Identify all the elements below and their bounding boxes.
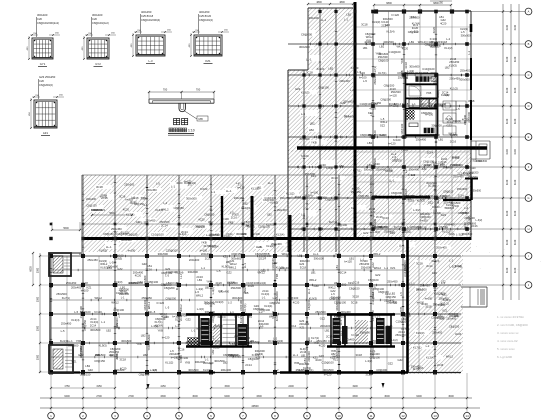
- svg-text:300x600: 300x600: [143, 275, 147, 286]
- svg-text:2C14: 2C14: [427, 150, 434, 154]
- svg-text:250x500: 250x500: [119, 287, 130, 291]
- svg-text:C8@200: C8@200: [186, 340, 197, 344]
- svg-text:KL1(2): KL1(2): [436, 90, 440, 98]
- svg-text:300x500: 300x500: [299, 362, 310, 366]
- svg-text:KL7(1): KL7(1): [243, 304, 247, 312]
- svg-text:GZ2: GZ2: [398, 358, 404, 362]
- svg-text:L-3(2): L-3(2): [373, 230, 380, 234]
- stair core C2: [327, 313, 395, 315]
- grid bubble row 1: [471, 11, 525, 13]
- svg-text:h=100: h=100: [200, 187, 208, 191]
- svg-text:WKL2: WKL2: [160, 312, 168, 316]
- svg-text:250x450: 250x450: [439, 297, 450, 301]
- lower block columns: [49, 254, 53, 258]
- svg-text:KZ1: KZ1: [300, 325, 305, 329]
- svg-text:LB1: LB1: [176, 355, 181, 359]
- svg-text:C: C: [528, 73, 530, 77]
- stair flight top (dark): [415, 76, 429, 82]
- svg-text:250x450: 250x450: [277, 208, 288, 212]
- svg-text:h=120: h=120: [252, 353, 260, 357]
- svg-text:L-3(2): L-3(2): [151, 324, 158, 328]
- svg-text:300x600: 300x600: [336, 282, 347, 286]
- svg-text:L-1: L-1: [201, 266, 205, 270]
- svg-text:2C16: 2C16: [383, 216, 390, 220]
- svg-text:LB1: LB1: [230, 342, 235, 346]
- svg-text:L-5: L-5: [74, 310, 78, 314]
- svg-text:WKL2: WKL2: [196, 293, 204, 297]
- svg-text:250x500: 250x500: [361, 265, 372, 269]
- svg-text:L-3(2): L-3(2): [207, 319, 211, 326]
- svg-text:KL7(1): KL7(1): [413, 345, 421, 349]
- svg-text:C8@150: C8@150: [307, 299, 311, 310]
- svg-text:KL7(1): KL7(1): [373, 66, 377, 74]
- svg-text:KL9(3): KL9(3): [441, 93, 449, 97]
- right ramp protrusion: [461, 286, 487, 288]
- svg-text:4C20: 4C20: [135, 274, 142, 278]
- svg-text:L-3(2): L-3(2): [413, 208, 421, 212]
- svg-text:300x500: 300x500: [450, 201, 461, 205]
- grid bubble column 12: [402, 373, 404, 412]
- svg-text:C8@150: C8@150: [334, 315, 345, 319]
- svg-text:LB2: LB2: [243, 201, 248, 205]
- svg-text:3C18: 3C18: [213, 345, 220, 349]
- elevator core outline: [405, 74, 437, 136]
- svg-text:C8@200: C8@200: [143, 299, 147, 310]
- svg-text:KZ1: KZ1: [390, 266, 395, 270]
- svg-text:KL1(2): KL1(2): [390, 338, 398, 342]
- svg-text:YKB: YKB: [147, 345, 151, 351]
- svg-text:KL3(4): KL3(4): [179, 232, 187, 236]
- svg-text:250x500: 250x500: [462, 232, 473, 236]
- svg-text:WKL2: WKL2: [436, 103, 444, 107]
- svg-text:2C16: 2C16: [353, 281, 360, 285]
- grid bubble column 1: [50, 373, 52, 412]
- svg-text:3C18: 3C18: [119, 357, 126, 361]
- svg-text:WKL2: WKL2: [416, 288, 424, 292]
- svg-text:GZ2: GZ2: [295, 87, 301, 91]
- svg-text:h=100: h=100: [243, 336, 251, 340]
- svg-text:WKL2: WKL2: [95, 296, 103, 300]
- hatched slab region: tower bottom / mid band east: [288, 150, 471, 252]
- svg-text:3000: 3000: [448, 395, 454, 398]
- svg-text:GZ2: GZ2: [432, 271, 438, 275]
- svg-text:2C16: 2C16: [450, 139, 457, 143]
- svg-text:AZ1: AZ1: [43, 131, 49, 135]
- svg-text:YKB: YKB: [243, 291, 249, 295]
- svg-text:L-2: L-2: [464, 207, 468, 210]
- svg-text:300x500: 300x500: [477, 160, 487, 163]
- svg-text:KL3(4): KL3(4): [175, 282, 179, 290]
- svg-text:C8@200: C8@200: [165, 296, 176, 300]
- svg-text:3100: 3100: [514, 118, 517, 124]
- svg-text:C8@200: C8@200: [161, 283, 172, 287]
- svg-text:M8: M8: [199, 117, 203, 121]
- svg-text:KZ1: KZ1: [223, 254, 228, 258]
- svg-text:GZ2: GZ2: [385, 23, 391, 27]
- svg-text:3C18: 3C18: [96, 185, 103, 189]
- svg-text:4C20: 4C20: [402, 47, 409, 51]
- svg-text:L-3(2): L-3(2): [407, 69, 414, 73]
- svg-text:C8@150: C8@150: [127, 232, 138, 236]
- svg-text:WKL2: WKL2: [229, 265, 237, 269]
- svg-text:LB2: LB2: [433, 286, 438, 290]
- svg-text:GZ2: GZ2: [142, 262, 148, 266]
- svg-text:C8@200: C8@200: [425, 133, 436, 137]
- tower columns: [371, 10, 375, 14]
- grid bubble column 13: [434, 373, 436, 412]
- svg-text:3C18: 3C18: [416, 261, 423, 265]
- band grid verticals: [81, 175, 83, 252]
- svg-text:B: B: [528, 42, 530, 46]
- svg-text:300x600: 300x600: [108, 265, 119, 269]
- svg-text:250x450: 250x450: [142, 296, 153, 300]
- svg-text:GZ2: GZ2: [375, 273, 381, 277]
- svg-text:C8@100/200(2x2): C8@100/200(2x2): [37, 21, 59, 25]
- svg-text:LB1: LB1: [363, 46, 368, 50]
- svg-text:C10@100: C10@100: [258, 224, 270, 228]
- svg-text:A: A: [528, 10, 530, 14]
- svg-text:h=100: h=100: [200, 248, 208, 252]
- svg-text:2C14: 2C14: [90, 323, 97, 327]
- short wall x=252: [251, 196, 254, 240]
- svg-text:C8@200: C8@200: [391, 191, 403, 195]
- svg-text:KL3(4): KL3(4): [387, 30, 395, 34]
- svg-text:C8@150: C8@150: [195, 224, 206, 228]
- svg-text:2C16: 2C16: [205, 256, 212, 260]
- svg-text:3100: 3100: [506, 149, 509, 155]
- grid bubble column 8: [274, 373, 276, 412]
- svg-text:C20: C20: [39, 79, 44, 83]
- wall segment y=197 tower bottom: [372, 196, 430, 198]
- svg-text:250x500: 250x500: [372, 339, 383, 343]
- svg-text:3100: 3100: [506, 118, 509, 124]
- svg-text:4C20: 4C20: [293, 300, 300, 304]
- svg-text:h=120: h=120: [430, 82, 438, 86]
- svg-text:KL3(4): KL3(4): [305, 194, 313, 198]
- grid bubble row 7: [471, 197, 525, 199]
- svg-text:GZ2: GZ2: [380, 123, 386, 127]
- svg-text:KZ1: KZ1: [72, 359, 77, 363]
- svg-text:2C14: 2C14: [212, 245, 219, 249]
- svg-text:6. Lg=1200: 6. Lg=1200: [497, 355, 512, 359]
- svg-text:C8@150: C8@150: [400, 313, 411, 317]
- svg-text:200x400: 200x400: [275, 291, 279, 302]
- svg-text:250x450: 250x450: [351, 190, 362, 194]
- svg-text:WKL2: WKL2: [446, 354, 454, 358]
- svg-text:L-1: L-1: [384, 266, 388, 270]
- svg-text:KL3(4): KL3(4): [432, 259, 440, 263]
- svg-text:L-5: L-5: [151, 310, 155, 314]
- svg-text:LB2: LB2: [85, 364, 90, 368]
- svg-text:KL7(1): KL7(1): [436, 196, 440, 204]
- svg-text:LL-1: LL-1: [307, 288, 311, 294]
- grid bubble column 7: [242, 373, 244, 412]
- svg-text:L-5: L-5: [399, 292, 403, 296]
- svg-text:h=120: h=120: [390, 93, 398, 97]
- svg-text:KL9(3): KL9(3): [416, 331, 424, 335]
- svg-text:LB2: LB2: [141, 334, 146, 338]
- svg-text:C8@150: C8@150: [83, 319, 87, 330]
- svg-text:700: 700: [163, 88, 168, 92]
- svg-text:WKL2: WKL2: [282, 252, 290, 256]
- svg-text:KL9(3): KL9(3): [215, 324, 223, 328]
- svg-text:C8@200: C8@200: [384, 83, 395, 87]
- svg-text:3C18: 3C18: [404, 62, 408, 69]
- svg-text:4. xxxx xxxx-02: 4. xxxx xxxx-02: [497, 339, 518, 343]
- svg-text:YKB: YKB: [313, 341, 319, 345]
- svg-text:2C16: 2C16: [386, 324, 393, 328]
- svg-text:WKL2: WKL2: [449, 132, 457, 136]
- stair core C1: [186, 313, 252, 316]
- svg-text:L-5: L-5: [165, 305, 169, 309]
- right grid dimension lines: [502, 4, 504, 300]
- svg-text:3100: 3100: [506, 24, 509, 30]
- svg-text:LL-1: LL-1: [211, 335, 215, 341]
- svg-text:L-1: L-1: [121, 295, 125, 299]
- svg-text:C6@200(2): C6@200(2): [39, 83, 53, 87]
- svg-text:KL3(4): KL3(4): [71, 318, 79, 322]
- svg-text:3C18: 3C18: [468, 99, 475, 103]
- svg-text:49500: 49500: [251, 404, 259, 408]
- svg-text:2700: 2700: [128, 395, 134, 398]
- svg-text:YKB: YKB: [372, 194, 378, 198]
- svg-text:GZ2: GZ2: [136, 220, 142, 224]
- svg-text:4C20: 4C20: [319, 343, 326, 347]
- svg-text:300x600: 300x600: [360, 330, 371, 334]
- bottom edge thick segments: [280, 371, 408, 374]
- svg-text:KL3(4): KL3(4): [276, 233, 284, 237]
- svg-text:250x450: 250x450: [421, 196, 432, 200]
- svg-text:GZ2: GZ2: [320, 316, 326, 320]
- svg-text:C8@150: C8@150: [231, 252, 242, 256]
- svg-text:6400: 6400: [320, 395, 326, 398]
- lower block outline: [49, 253, 51, 373]
- svg-text:300x500: 300x500: [205, 301, 216, 305]
- svg-text:L-2: L-2: [228, 300, 232, 304]
- svg-text:KL7(1): KL7(1): [303, 366, 311, 370]
- svg-text:3000: 3000: [288, 395, 294, 398]
- svg-text:1500: 1500: [224, 385, 230, 388]
- svg-text:3C18: 3C18: [365, 372, 372, 376]
- svg-text:KL3(4): KL3(4): [426, 356, 434, 360]
- svg-text:LB1: LB1: [438, 137, 443, 141]
- svg-text:h=120: h=120: [317, 67, 325, 71]
- svg-text:KL1(2): KL1(2): [441, 302, 449, 306]
- svg-text:250x450: 250x450: [395, 333, 406, 337]
- svg-text:WKL2: WKL2: [147, 301, 151, 309]
- svg-text:C8@150: C8@150: [358, 194, 369, 198]
- svg-text:KL3(4): KL3(4): [258, 281, 266, 285]
- svg-text:YKB: YKB: [158, 328, 164, 332]
- svg-text:GZ2: GZ2: [88, 368, 94, 372]
- lower block grid verticals: [49, 253, 51, 372]
- svg-text:3C18: 3C18: [331, 176, 338, 180]
- svg-text:C8@200: C8@200: [301, 33, 313, 37]
- svg-text:KL7(1): KL7(1): [330, 341, 338, 345]
- svg-text:LB1: LB1: [147, 264, 152, 268]
- svg-text:C8@150: C8@150: [134, 202, 145, 206]
- svg-text:GY2: GY2: [95, 62, 101, 66]
- svg-text:h=100: h=100: [128, 248, 136, 252]
- svg-text:KL3(4): KL3(4): [218, 315, 226, 319]
- svg-text:5600: 5600: [63, 227, 69, 230]
- core wall y=98.5: [405, 97, 437, 99]
- svg-text:200x400: 200x400: [339, 79, 350, 83]
- svg-text:L-3(2): L-3(2): [419, 102, 426, 106]
- svg-text:3000: 3000: [37, 296, 40, 302]
- svg-text:KL1(2): KL1(2): [286, 192, 294, 196]
- svg-text:L-5: L-5: [357, 70, 361, 74]
- svg-text:LL-1: LL-1: [313, 252, 319, 256]
- svg-text:C8@200: C8@200: [204, 212, 215, 216]
- svg-text:4C20: 4C20: [275, 314, 279, 321]
- svg-text:300x600: 300x600: [68, 343, 79, 347]
- svg-text:200x400: 200x400: [203, 361, 214, 365]
- svg-text:L-3(2): L-3(2): [476, 219, 483, 222]
- shear wall x=407: [406, 240, 409, 372]
- svg-text:h=100: h=100: [359, 75, 367, 79]
- svg-text:700: 700: [196, 88, 201, 92]
- svg-text:200x400: 200x400: [436, 245, 447, 249]
- grid bubble row 9: [462, 255, 525, 257]
- svg-text:250x450: 250x450: [61, 322, 72, 326]
- svg-text:KL9(3): KL9(3): [449, 63, 457, 67]
- svg-text:WKL2: WKL2: [111, 300, 119, 304]
- svg-text:YKB: YKB: [185, 361, 191, 365]
- svg-text:WKL2: WKL2: [328, 286, 336, 290]
- svg-text:KL1(2): KL1(2): [243, 237, 251, 241]
- svg-text:6400: 6400: [224, 395, 230, 398]
- svg-text:GZ2: GZ2: [390, 231, 396, 235]
- svg-text:3000: 3000: [37, 267, 40, 273]
- svg-text:2C16: 2C16: [145, 268, 152, 272]
- svg-text:LB2: LB2: [409, 96, 414, 100]
- svg-text:h=100: h=100: [420, 218, 428, 222]
- secondary beams: [51, 269, 407, 271]
- svg-text:-: -: [517, 268, 518, 271]
- tower right wall thick segments: [470, 24, 473, 32]
- svg-text:3100: 3100: [506, 87, 509, 93]
- svg-text:L-3: L-3: [148, 59, 152, 63]
- svg-text:250x450: 250x450: [373, 74, 377, 85]
- svg-text:GZ2: GZ2: [186, 317, 192, 321]
- svg-text:GZ2: GZ2: [314, 284, 320, 288]
- svg-text:h=100: h=100: [432, 205, 440, 209]
- svg-text:L-1: L-1: [191, 328, 195, 332]
- svg-text:C8@200: C8@200: [371, 346, 375, 357]
- tower grid lines vertical: [318, 8, 320, 252]
- svg-text:KL1(2): KL1(2): [276, 266, 284, 270]
- svg-text:300x600: 300x600: [232, 296, 243, 300]
- tower outline: [308, 7, 353, 9]
- svg-text:L-1: L-1: [395, 157, 399, 161]
- svg-text:200x400: 200x400: [221, 368, 232, 372]
- svg-text:300x500: 300x500: [121, 339, 132, 343]
- tower grid lines horizontal: [288, 42, 471, 44]
- svg-text:L-3(2): L-3(2): [197, 307, 204, 311]
- svg-text:-: -: [504, 249, 505, 252]
- svg-text:L-1: L-1: [171, 185, 175, 189]
- svg-text:L-5: L-5: [230, 211, 234, 215]
- svg-text:-: -: [540, 260, 541, 263]
- svg-text:3100: 3100: [514, 179, 517, 185]
- svg-text:C10@100: C10@100: [116, 291, 129, 295]
- svg-text:C8@100: C8@100: [139, 372, 150, 376]
- svg-text:L-5: L-5: [156, 182, 160, 186]
- svg-text:C20: C20: [37, 17, 42, 21]
- svg-text:300x600: 300x600: [188, 270, 199, 274]
- svg-text:11: 11: [369, 414, 372, 418]
- svg-text:C8@200: C8@200: [449, 325, 460, 329]
- svg-text:250x450: 250x450: [344, 115, 355, 119]
- svg-text:KZ1: KZ1: [368, 111, 373, 115]
- svg-text:3300: 3300: [256, 395, 262, 398]
- svg-text:13: 13: [433, 414, 437, 418]
- svg-text:LB1: LB1: [205, 285, 210, 289]
- svg-text:L-2: L-2: [273, 336, 277, 340]
- svg-text:200x400: 200x400: [320, 324, 331, 328]
- svg-text:C8@100/200(4): C8@100/200(4): [141, 18, 160, 22]
- svg-text:3300: 3300: [352, 395, 358, 398]
- svg-text:KL1(2): KL1(2): [444, 46, 452, 50]
- svg-text:KZ1: KZ1: [422, 167, 427, 171]
- svg-text:C8@100: C8@100: [400, 123, 404, 134]
- svg-text:200x400: 200x400: [387, 300, 398, 304]
- svg-text:KL3(4): KL3(4): [239, 315, 243, 323]
- svg-text:2C14: 2C14: [423, 163, 430, 167]
- svg-text:250x500: 250x500: [124, 183, 135, 187]
- svg-text:C8@200: C8@200: [164, 286, 175, 290]
- svg-text:3100: 3100: [514, 149, 517, 155]
- svg-text:C8@100: C8@100: [148, 280, 159, 284]
- tower secondary rows: [356, 26, 471, 28]
- hook loop: [179, 103, 185, 112]
- svg-text:L-1: L-1: [412, 102, 416, 106]
- svg-text:L-2: L-2: [449, 258, 453, 262]
- grid bubble column 9: [306, 373, 308, 412]
- svg-text:L-1: L-1: [205, 357, 209, 361]
- svg-text:2C14: 2C14: [340, 270, 347, 274]
- svg-text:C8@100: C8@100: [378, 58, 389, 62]
- svg-text:KZ1: KZ1: [443, 308, 448, 312]
- svg-text:250x500: 250x500: [315, 310, 326, 314]
- svg-text:h=100: h=100: [425, 297, 433, 301]
- svg-text:KL3(4): KL3(4): [264, 304, 272, 308]
- svg-text:LB1: LB1: [311, 270, 316, 274]
- svg-text:L-1: L-1: [238, 182, 242, 186]
- svg-text:L-5: L-5: [217, 269, 221, 273]
- stairwell NW: [49, 253, 71, 276]
- svg-text:h=120: h=120: [388, 142, 396, 146]
- grid bubble row 4: [471, 105, 525, 107]
- svg-text:LB2: LB2: [445, 65, 450, 69]
- svg-text:3100: 3100: [506, 210, 509, 216]
- svg-text:C8@200: C8@200: [403, 260, 407, 271]
- svg-text:LB1: LB1: [303, 358, 307, 363]
- grid bubble row 2: [471, 43, 525, 45]
- svg-text:WKL2: WKL2: [432, 161, 440, 165]
- stairwell SW: [49, 345, 73, 373]
- svg-text:6400: 6400: [64, 395, 70, 398]
- core cells row: [409, 99, 420, 107]
- svg-text:L-2: L-2: [218, 289, 222, 293]
- svg-text:C10@100: C10@100: [334, 301, 347, 305]
- svg-text:300x600: 300x600: [445, 207, 455, 210]
- svg-text:300x600: 300x600: [309, 16, 320, 20]
- svg-text:KL9(3): KL9(3): [309, 296, 317, 300]
- svg-text:200x400: 200x400: [444, 222, 455, 226]
- svg-text:GZ2: GZ2: [254, 304, 260, 308]
